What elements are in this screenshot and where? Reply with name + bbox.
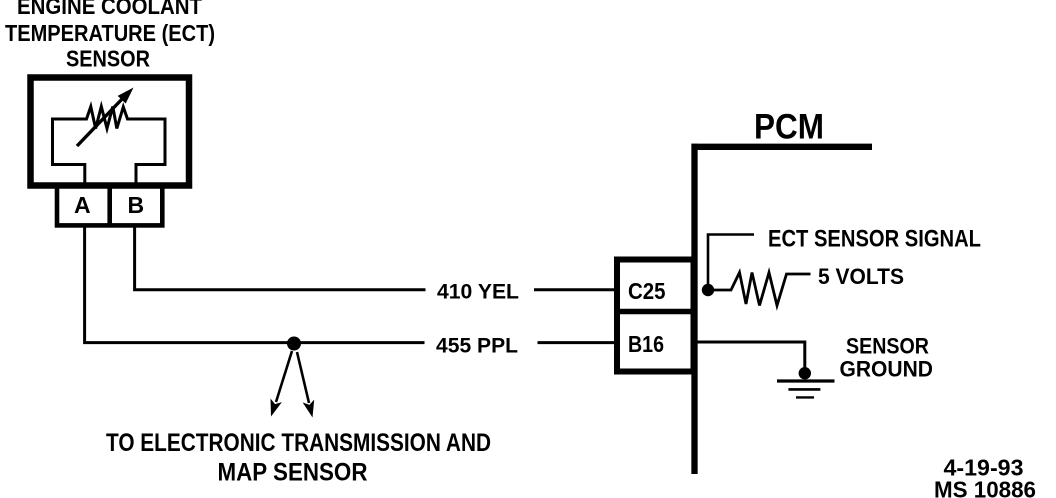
wire B16 to sensor ground <box>697 342 805 369</box>
pull-up resistor to 5 volts <box>714 273 811 306</box>
ground node dot <box>799 367 811 379</box>
variable resistor arrow <box>77 88 134 147</box>
svg-text:SENSOR: SENSOR <box>66 46 150 72</box>
connector divider <box>617 309 694 315</box>
svg-text:TEMPERATURE (ECT): TEMPERATURE (ECT) <box>5 20 215 46</box>
wire 455 PPL to B16 <box>538 341 618 344</box>
svg-text:SENSOR: SENSOR <box>846 334 929 359</box>
svg-text:TO ELECTRONIC TRANSMISSION AND: TO ELECTRONIC TRANSMISSION AND <box>106 429 491 457</box>
svg-text:PCM: PCM <box>754 108 824 147</box>
svg-text:B: B <box>127 192 144 218</box>
svg-text:410 YEL: 410 YEL <box>437 281 519 304</box>
pointer wire to ECT SENSOR SIGNAL label <box>708 235 754 289</box>
terminal block <box>57 185 162 225</box>
svg-text:455 PPL: 455 PPL <box>436 335 518 358</box>
label: ENGINE COOLANT TEMPERATURE (ECT) SENSOR title <box>5 0 215 72</box>
terminal divider <box>107 185 112 225</box>
PCM boundary line <box>692 144 873 474</box>
svg-text:5 VOLTS: 5 VOLTS <box>818 264 904 289</box>
arrow to electronic transmission <box>271 351 293 417</box>
label TO ELECTRONIC TRANSMISSION AND MAP SENSOR <box>106 429 491 487</box>
node dot at C25 output <box>702 284 714 296</box>
wire 410 YEL from pin B <box>135 225 426 290</box>
PCM connector box <box>617 260 694 372</box>
svg-text:MS 10886: MS 10886 <box>934 477 1036 498</box>
arrow to MAP sensor <box>297 352 314 418</box>
wire 455 PPL from pin A <box>85 225 425 343</box>
svg-text:MAP SENSOR: MAP SENSOR <box>218 459 368 487</box>
junction node on 455 PPL <box>287 337 301 351</box>
svg-text:B16: B16 <box>628 331 664 357</box>
wire 410 YEL to C25 <box>534 288 617 291</box>
svg-text:ENGINE COOLANT: ENGINE COOLANT <box>17 0 203 19</box>
label SENSOR GROUND <box>840 334 934 382</box>
svg-text:GROUND: GROUND <box>840 357 934 382</box>
svg-text:ECT SENSOR SIGNAL: ECT SENSOR SIGNAL <box>768 226 981 253</box>
sensor ECT outer box <box>31 78 190 186</box>
ground symbol <box>777 381 835 397</box>
svg-text:C25: C25 <box>628 278 666 304</box>
svg-text:A: A <box>74 192 91 218</box>
thermistor element outline <box>53 107 166 189</box>
